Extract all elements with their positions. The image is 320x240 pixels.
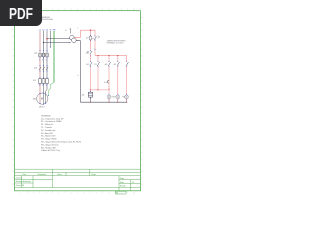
svg-text:S0 - Arret NC: S0 - Arret NC xyxy=(41,132,53,135)
svg-text:K: K xyxy=(12,145,14,147)
svg-text:1/1: 1/1 xyxy=(132,182,134,184)
drawing frame group (decorative) xyxy=(15,11,141,191)
svg-text:H: H xyxy=(141,107,143,109)
svg-text:96: 96 xyxy=(92,38,94,40)
svg-text:B: B xyxy=(141,30,142,32)
svg-text:T1 - Transfo: T1 - Transfo xyxy=(41,127,53,129)
svg-text:Date: Date xyxy=(23,173,27,176)
svg-text:PE: PE xyxy=(53,29,56,31)
seal-in contact K1 aux xyxy=(94,56,99,90)
branch lamp H2 with aux contact xyxy=(113,56,119,95)
svg-text:L3: L3 xyxy=(46,29,49,31)
svg-text:Page: Page xyxy=(120,178,124,180)
node tap1 to transformer primary xyxy=(46,38,71,39)
svg-text:JUMPER WIRE BETWEEN: JUMPER WIRE BETWEEN xyxy=(107,40,126,42)
svg-text:4: 4 xyxy=(58,9,59,11)
svg-text:H3 - Voyant tension: H3 - Voyant tension xyxy=(41,143,58,146)
svg-text:1: 1 xyxy=(20,193,21,195)
svg-text:Client: Client xyxy=(57,173,62,176)
svg-text:-F1: -F1 xyxy=(33,80,37,82)
svg-text:S1 - Marche NO: S1 - Marche NO xyxy=(41,136,56,138)
svg-text:C: C xyxy=(141,43,143,45)
svg-text:-F2: -F2 xyxy=(86,37,89,39)
svg-text:I: I xyxy=(142,120,143,122)
chevron marker xyxy=(98,36,100,39)
wire N xyxy=(50,29,52,47)
svg-text:-Q1: -Q1 xyxy=(34,52,38,54)
svg-text:4: 4 xyxy=(58,193,59,195)
svg-text:1: 1 xyxy=(77,27,78,29)
svg-text:-F1: -F1 xyxy=(113,64,116,66)
svg-text:C: C xyxy=(12,43,14,45)
fuse F2 xyxy=(86,30,92,49)
svg-text:6: 6 xyxy=(83,9,84,11)
svg-text:M: M xyxy=(141,171,143,173)
svg-text:H1 - Voyant RUN: H1 - Voyant RUN xyxy=(41,138,57,141)
right corner rail down xyxy=(126,56,128,95)
stop button S0 xyxy=(86,50,93,56)
transformer T1 xyxy=(65,27,78,43)
motor M1 xyxy=(33,93,49,109)
notes legend text block xyxy=(41,115,82,152)
branch lamp H1 with aux contact xyxy=(104,56,111,95)
PDF badge xyxy=(0,0,42,26)
svg-text:G: G xyxy=(12,94,14,96)
svg-text:E: E xyxy=(141,68,142,70)
svg-text:5: 5 xyxy=(71,9,72,11)
control bottom rail xyxy=(80,102,127,103)
svg-text:M1 - Moteur 3Ph: M1 - Moteur 3Ph xyxy=(41,146,56,149)
disconnect bypass contact xyxy=(92,30,96,55)
seal join wire xyxy=(90,89,110,92)
wire transformer secondary neutral xyxy=(76,41,80,102)
svg-text:Folio: Folio xyxy=(120,182,124,184)
control mid rail xyxy=(95,55,127,56)
annotation note control xyxy=(107,40,126,44)
svg-text:13: 13 xyxy=(94,64,96,66)
svg-text:10: 10 xyxy=(133,9,135,11)
pilot lamp H3 xyxy=(122,94,128,102)
circuit breaker Q1 xyxy=(34,50,48,58)
header note text xyxy=(39,16,54,21)
svg-text:3: 3 xyxy=(46,193,47,195)
svg-text:Projet: Projet xyxy=(91,173,96,176)
svg-text:Norme CEI: Norme CEI xyxy=(16,184,25,187)
svg-text:-S1: -S1 xyxy=(86,64,89,66)
pilot lamp H1 xyxy=(107,94,114,102)
svg-text:-K1: -K1 xyxy=(104,64,107,66)
svg-text:4: 4 xyxy=(42,85,43,87)
svg-text:5: 5 xyxy=(46,59,47,61)
svg-text:6: 6 xyxy=(46,85,47,87)
svg-text:Q1 - Disjoncteur mag. 3P: Q1 - Disjoncteur mag. 3P xyxy=(41,117,64,120)
svg-text:1: 1 xyxy=(39,59,40,61)
wire L1 xyxy=(39,29,42,95)
contactor K1 main contacts xyxy=(34,65,48,72)
wire transformer secondary live (red) xyxy=(74,30,95,38)
svg-text:Schema demarrage: Schema demarrage xyxy=(16,180,31,183)
svg-text:-K1: -K1 xyxy=(34,67,38,69)
svg-text:Cables HO7V-K 2.5q: Cables HO7V-K 2.5q xyxy=(41,150,60,152)
svg-text:-T1: -T1 xyxy=(65,30,67,32)
svg-text:J: J xyxy=(142,133,143,135)
svg-text:7: 7 xyxy=(96,9,97,11)
svg-text:E: E xyxy=(12,68,13,70)
svg-text:H3: H3 xyxy=(122,97,124,99)
svg-text:MOT 3~: MOT 3~ xyxy=(39,107,45,109)
svg-text:F1 - Relais th.: F1 - Relais th. xyxy=(41,123,54,126)
svg-text:Echelle: Echelle xyxy=(120,186,126,188)
svg-text:6: 6 xyxy=(83,193,84,195)
svg-text:F2 - Fusible cde: F2 - Fusible cde xyxy=(41,130,56,132)
svg-text:8: 8 xyxy=(109,193,110,195)
svg-text:A4: A4 xyxy=(116,192,118,195)
overload relay F1 xyxy=(33,77,49,84)
svg-text:F: F xyxy=(13,81,14,83)
svg-text:F: F xyxy=(142,81,143,83)
contactor coil K1 xyxy=(81,91,92,102)
title block xyxy=(15,169,141,194)
svg-text:7: 7 xyxy=(96,193,97,195)
svg-text:3: 3 xyxy=(46,9,47,11)
svg-text:LEGENDE: LEGENDE xyxy=(41,115,51,117)
svg-text:M: M xyxy=(12,171,14,173)
svg-text:-K1: -K1 xyxy=(81,94,84,96)
svg-text:D: D xyxy=(12,55,14,57)
svg-text:D: D xyxy=(141,55,143,57)
svg-text:K1 - Contacteur 24VAC: K1 - Contacteur 24VAC xyxy=(41,120,62,123)
wire PE xyxy=(49,29,57,95)
svg-text:-S0: -S0 xyxy=(86,53,89,55)
svg-text:2: 2 xyxy=(39,85,40,87)
svg-text:H2 - Voyant defaut thermique r: H2 - Voyant defaut thermique relais F1 9… xyxy=(41,141,82,144)
svg-text:10: 10 xyxy=(133,193,135,195)
wire L3 xyxy=(45,29,48,94)
svg-text:L: L xyxy=(13,158,14,160)
svg-text:2: 2 xyxy=(33,193,34,195)
svg-text:Dessine: Dessine xyxy=(16,178,22,180)
svg-text:B: B xyxy=(12,30,13,32)
pilot lamp H2 xyxy=(114,94,120,102)
svg-text:N: N xyxy=(12,184,14,186)
svg-text:K: K xyxy=(141,145,143,147)
svg-text:8: 8 xyxy=(109,9,110,11)
svg-text:Commande: Commande xyxy=(37,174,46,176)
svg-text:9: 9 xyxy=(121,9,122,11)
svg-text:N: N xyxy=(50,29,52,31)
wire L2 xyxy=(42,29,45,93)
svg-text:G: G xyxy=(141,94,143,96)
node tap2 to transformer primary xyxy=(43,42,71,43)
start button S1 xyxy=(86,56,92,90)
svg-text:I: I xyxy=(13,120,14,122)
svg-text:5: 5 xyxy=(71,193,72,195)
svg-text:M: M xyxy=(41,97,43,100)
wire number labels power xyxy=(39,59,47,87)
svg-text:A: A xyxy=(141,16,143,19)
svg-text:N: N xyxy=(141,184,143,186)
svg-text:L: L xyxy=(142,158,143,160)
svg-text:0: 0 xyxy=(78,75,79,77)
svg-text:J: J xyxy=(13,133,14,135)
svg-text:3: 3 xyxy=(42,59,43,61)
svg-text:-F1: -F1 xyxy=(104,82,107,84)
svg-text:H2: H2 xyxy=(114,97,116,99)
svg-text:H: H xyxy=(12,107,14,109)
